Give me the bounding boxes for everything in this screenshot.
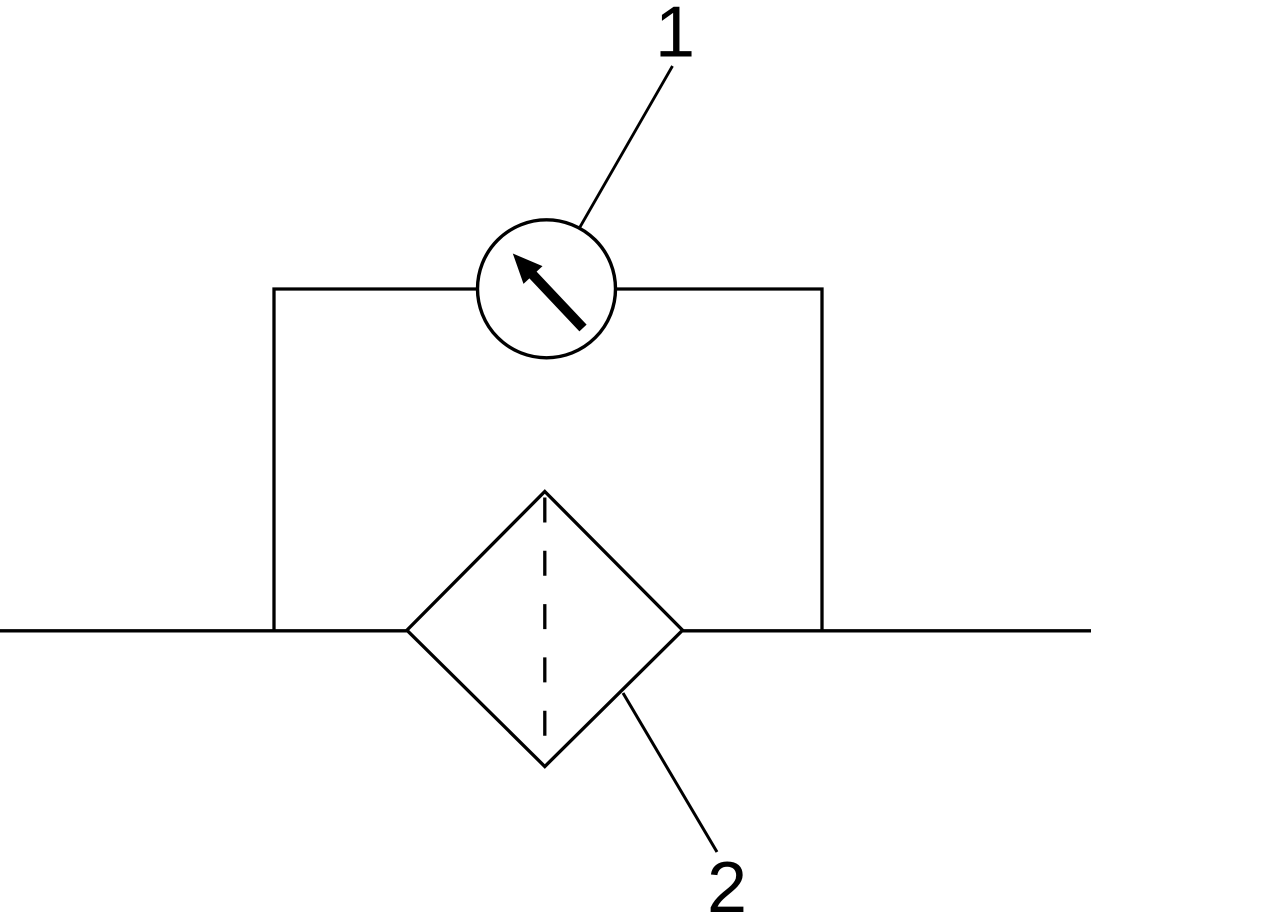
gauge needle arrow — [513, 254, 587, 332]
main line (right segment) — [681, 629, 1091, 632]
filter F1 (diamond) — [407, 492, 683, 767]
main line (left segment) — [0, 629, 409, 632]
svg-text:1: 1 — [655, 0, 695, 73]
svg-text:2: 2 — [707, 848, 747, 923]
filter element (dashed line) — [543, 498, 546, 737]
leader line to label 2 — [623, 693, 717, 852]
bypass loop wire — [274, 289, 822, 631]
gauge U1 (circle) — [478, 220, 616, 358]
leader line to label 1 — [580, 66, 673, 227]
